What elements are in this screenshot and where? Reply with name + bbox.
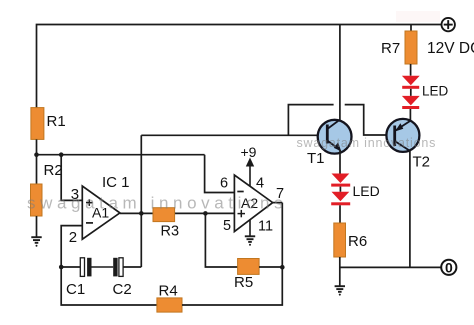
svg-text:R6: R6	[348, 233, 367, 250]
wire: A1 output to A2 pin5 through R3	[120, 212, 234, 214]
wire: feedback top run to T1 base	[141, 134, 317, 136]
svg-text:LED: LED	[353, 183, 380, 199]
svg-text:R2: R2	[44, 162, 63, 179]
LED D4 (T2 chain, lower)	[402, 96, 420, 109]
wire: base hop bracket right segment to T2 base	[345, 105, 387, 135]
svg-text:R3: R3	[161, 224, 180, 240]
svg-text:IC 1: IC 1	[102, 174, 130, 191]
wire: divider run corner down to A2 pin6	[205, 155, 235, 193]
svg-text:swagatam innovations: swagatam innovations	[27, 194, 287, 213]
svg-text:+9: +9	[241, 144, 257, 160]
wire: R2 top lead	[36, 155, 38, 184]
wire: between T1 LEDs	[339, 187, 341, 192]
node: junction dot branch to A1 pin3	[59, 152, 64, 157]
wire: R2 bottom lead to ground	[36, 216, 38, 237]
wire: divider node horizontal run to A2 pin6 corner	[37, 154, 205, 156]
wire: R7 to LED chain	[410, 64, 412, 76]
wire: base hop bracket left segment	[288, 105, 333, 136]
wire: branch down from R3 node to R5	[205, 213, 237, 267]
wire: LEDs to R6	[339, 205, 341, 223]
LED D3 (T2 chain, upper)	[402, 76, 420, 89]
wire: between T2 LEDs	[410, 89, 412, 96]
op-amp A1 triangle	[82, 186, 120, 239]
wire: T2 emitter down to 0V rail	[409, 150, 411, 267]
svg-text:C1: C1	[66, 281, 85, 298]
transistor T1	[318, 120, 352, 154]
wire: T1 collector to top rail	[339, 25, 341, 121]
resistor R1	[31, 108, 44, 140]
svg-text:4: 4	[256, 175, 264, 191]
terminal 0V	[441, 260, 456, 276]
A2 +9 supply arrow	[246, 158, 254, 187]
watermark pink smudge	[396, 11, 440, 22]
wire: T1 emitter down to LEDs	[339, 150, 341, 174]
svg-text:swagatam innovations: swagatam innovations	[297, 136, 437, 150]
svg-text:T1: T1	[307, 150, 325, 167]
capacitor C1	[80, 258, 91, 277]
node: junction dot A1 output	[139, 211, 144, 216]
LED D2 (T1 chain, lower)	[331, 192, 350, 206]
wire: cap row left segment	[61, 266, 80, 268]
A1 minus input mark	[86, 222, 93, 224]
wire: R7 top lead from rail	[410, 25, 412, 32]
wire: bottom-left run down and along bottom to R4	[61, 267, 157, 305]
svg-text:2: 2	[69, 229, 77, 246]
wire: LED chain to T2	[409, 109, 411, 121]
wire: bottom run from R4 to A2 output riser	[182, 203, 282, 305]
ground below A2	[245, 220, 255, 246]
resistor R7	[405, 31, 417, 64]
wire: R6 bottom to ground node	[339, 257, 341, 286]
terminal +12V	[442, 18, 455, 31]
svg-text:R7: R7	[381, 40, 400, 57]
wire: A1 pin2 lead down to C1 node	[61, 226, 82, 267]
ground below R2	[31, 237, 41, 247]
svg-text:R5: R5	[234, 274, 253, 291]
A2 minus input mark	[237, 191, 243, 193]
wire: between C1 and C2	[92, 266, 114, 268]
wire: R5 right lead to A2 output riser	[259, 266, 282, 268]
svg-text:LED: LED	[422, 84, 449, 99]
node: junction dot R5 / A2 output riser	[280, 265, 285, 270]
svg-text:C2: C2	[113, 281, 132, 298]
LED D1 (T1 chain, upper)	[331, 174, 350, 187]
ground below R6	[335, 286, 345, 295]
node: junction dot R1/R2 divider	[34, 152, 39, 157]
resistor R5	[238, 259, 260, 275]
wire: branch down from divider run to A1 pin3	[61, 155, 82, 201]
resistor R2	[31, 184, 43, 216]
resistor R6	[334, 223, 346, 257]
node: junction dot R3 right / R5 branch	[203, 211, 208, 216]
A2 plus input mark	[238, 210, 246, 217]
wire: cap row right segment to feedback riser	[123, 266, 141, 268]
wire: A2 output horizontal stub	[273, 202, 283, 204]
svg-text:11: 11	[258, 219, 273, 235]
wire: top +12V rail from top-left corner to + terminal	[37, 25, 442, 108]
svg-text:R1: R1	[47, 113, 66, 130]
svg-text:6: 6	[220, 175, 228, 191]
wire: R1 bottom lead to divider node	[36, 139, 38, 154]
svg-text:0: 0	[445, 260, 453, 276]
resistor R4	[157, 298, 182, 312]
capacitor C2	[113, 258, 123, 277]
transistor T2	[386, 119, 419, 152]
wire: 0V rail from R6 node to 0 terminal	[340, 266, 442, 268]
svg-text:5: 5	[223, 218, 231, 234]
A1 plus input mark	[86, 199, 93, 206]
op-amp A2 triangle	[234, 175, 272, 232]
svg-text:12V DC: 12V DC	[427, 40, 474, 57]
svg-text:T2: T2	[413, 154, 431, 171]
node: junction dot capacitor row left	[59, 265, 64, 270]
resistor R3	[153, 208, 175, 222]
svg-text:R4: R4	[159, 283, 178, 300]
wire: feedback riser from cap row through A1 output up to T1 base run	[140, 135, 142, 267]
